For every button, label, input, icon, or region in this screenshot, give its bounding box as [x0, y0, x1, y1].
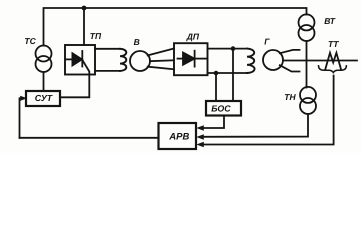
- svg-text:ТН: ТН: [284, 92, 296, 102]
- coil: generator field winding: [247, 49, 255, 73]
- svg-text:ТП: ТП: [90, 31, 102, 41]
- rectifier block TP (thyristor converter): [65, 45, 95, 75]
- node: junction dot on bottom output: [214, 71, 219, 76]
- node: junction dot on top output: [231, 46, 236, 51]
- wire: DP bottom output down to BOS: [215, 73, 217, 101]
- svg-text:В: В: [134, 37, 140, 47]
- wire: TN down and left into ARV: [201, 114, 308, 137]
- svg-text:ВТ: ВТ: [324, 16, 336, 26]
- svg-text:Г: Г: [264, 37, 270, 47]
- wire: generator main bus (middle phase): [283, 60, 357, 62]
- wire: feedback from bottom bus up into SUT with arrow: [20, 98, 22, 138]
- svg-text:ДП: ДП: [186, 32, 200, 42]
- wire: vertical VT-to-TN branch: [306, 41, 308, 88]
- wire: ARV output left along bottom: [20, 137, 159, 139]
- svg-text:ТТ: ТТ: [328, 39, 339, 49]
- wire: generator phase stub bottom: [280, 65, 300, 71]
- arrowhead into SUT left: [20, 96, 27, 101]
- wire: DP top output down to BOS: [232, 49, 234, 101]
- transformer TN (two overlapping circles): [300, 87, 316, 114]
- block ARV: [159, 123, 197, 149]
- wire: drop from top bus to TP box: [83, 8, 85, 45]
- wire: thyristor gate lead down to SUT line: [61, 60, 90, 97]
- machine V (exciter): [130, 51, 150, 71]
- machine G (generator): [263, 50, 283, 70]
- arrowhead TT line into ARV: [196, 142, 204, 147]
- wire: DP output pair to generator field coil: [208, 48, 248, 50]
- transformer VT (two overlapping circles): [299, 14, 315, 41]
- svg-text:ТС: ТС: [24, 36, 36, 46]
- wire: TP output pair to exciter field coil: [95, 48, 120, 50]
- arrowhead TN line into ARV: [196, 134, 204, 139]
- thyristor inside TP: [66, 51, 83, 67]
- diode inside DP: [178, 51, 208, 67]
- wire: TT secondary down and left into ARV: [201, 76, 334, 145]
- svg-text:АРВ: АРВ: [168, 132, 189, 143]
- svg-text:СУТ: СУТ: [35, 93, 53, 103]
- wire: TC bottom to SUT top: [43, 72, 45, 91]
- rectifier block DP (diode converter): [174, 43, 208, 75]
- arrowhead BOS line into ARV: [196, 125, 204, 130]
- brace under TT: [319, 66, 347, 73]
- wire: BOS down and left into ARV: [201, 116, 224, 129]
- wire: generator phase stub top: [280, 50, 300, 53]
- wire: 3-phase fan V to DP: [148, 49, 174, 56]
- coil: exciter field winding: [120, 49, 126, 71]
- transformer TC (two overlapping circles): [36, 46, 52, 73]
- block BOS: [206, 101, 241, 116]
- node: junction dot on top bus above TP: [82, 6, 87, 11]
- svg-text:БОС: БОС: [211, 104, 231, 114]
- current transformer TT (zigzag on bus): [325, 53, 341, 70]
- control block SUT: [26, 91, 60, 106]
- wire: top bus from TC corner to VT corner: [44, 8, 307, 46]
